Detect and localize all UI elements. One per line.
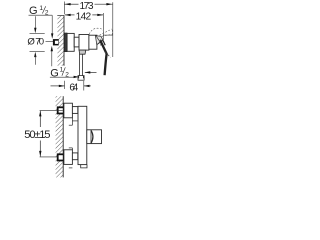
union cylinder [67, 33, 74, 51]
top inlet union [57, 106, 65, 114]
bottom connector neck [72, 153, 77, 160]
bottom inlet union [57, 153, 65, 161]
top escutcheon [64, 103, 73, 118]
top connector neck [72, 107, 77, 114]
svg-text:50±15: 50±15 [24, 129, 50, 141]
svg-text:1: 1 [39, 5, 43, 12]
handle knob section [91, 130, 93, 143]
svg-text:70: 70 [35, 36, 44, 47]
dim 64 [51, 81, 91, 94]
svg-text:Ø: Ø [27, 36, 35, 47]
outlet tab below body [81, 165, 87, 168]
lever handle [95, 36, 110, 75]
wall cross-section [57, 15, 64, 65]
escutcheon plate (side view, dark) [64, 33, 67, 52]
bottom union extras [69, 148, 73, 168]
dia 70 dim [27, 16, 44, 65]
dim 142 [65, 11, 104, 40]
connector ring [74, 37, 79, 47]
body front [78, 106, 87, 164]
center line to union [46, 40, 54, 42]
union socket in wall [53, 39, 59, 45]
svg-text:173: 173 [80, 1, 94, 12]
G 1/2 top label [29, 5, 54, 39]
wall cross-section [56, 96, 64, 177]
top union extras [69, 118, 78, 125]
raised lever extent line [103, 34, 113, 36]
arrow to outlet [85, 71, 97, 73]
outlet flange [79, 50, 86, 54]
svg-text:64: 64 [69, 82, 78, 93]
outlet end fitting [78, 76, 84, 81]
svg-text:G: G [50, 67, 59, 79]
dim 50+-15 [24, 110, 63, 156]
svg-text:142: 142 [76, 11, 92, 22]
dashed raised lever [89, 28, 112, 36]
outlet pipe [80, 54, 83, 75]
bottom escutcheon [64, 150, 73, 165]
handle front [87, 130, 102, 144]
G 1/2 bottom label [50, 46, 79, 80]
dim 173 [64, 1, 113, 57]
valve body [79, 35, 89, 51]
cartridge cap [89, 35, 97, 49]
